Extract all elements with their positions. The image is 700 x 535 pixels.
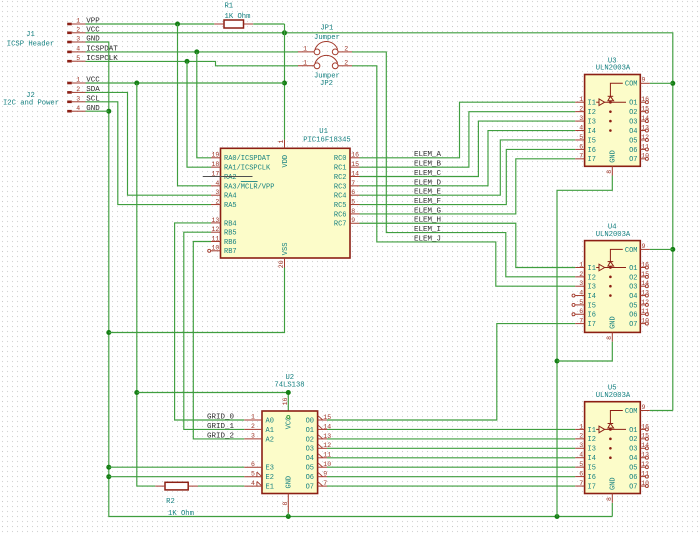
wire GRID_2 RB6 to U2 A2	[193, 242, 244, 439]
IC U1 body	[221, 148, 351, 258]
svg-text:18: 18	[211, 161, 219, 168]
IC U1 pin RA2 no-connect line	[203, 176, 253, 178]
wire VCC to U5 COM	[650, 410, 673, 412]
svg-text:8: 8	[606, 170, 613, 174]
IC U4 pin 15 O2	[629, 271, 649, 283]
svg-text:RA3/MCLR/VPP: RA3/MCLR/VPP	[224, 183, 274, 191]
svg-text:GRID_0: GRID_0	[207, 413, 235, 421]
svg-text:O6: O6	[629, 312, 637, 320]
svg-text:I4: I4	[588, 455, 596, 463]
connector J2 value I2C and Power	[3, 100, 59, 108]
wire VCC left vertical	[137, 83, 156, 486]
wire U2 O7 to U5 I7	[327, 485, 575, 487]
svg-text:O1: O1	[629, 100, 637, 108]
wire E1 R2 to U2	[198, 485, 244, 487]
svg-text:RA1/ICSPCLK: RA1/ICSPCLK	[224, 165, 271, 173]
IC U1 pin RA3 MCLR overbar	[241, 181, 258, 183]
IC U1 pin 2 RA5	[211, 198, 237, 210]
connector J2 pin 1 VCC	[67, 77, 100, 85]
connector J2 pin 2 SDA	[67, 86, 100, 94]
IC U2 reference	[285, 374, 294, 382]
jumper JP1 reference	[320, 24, 333, 32]
jumper JP2 reference	[320, 80, 333, 88]
svg-text:7: 7	[579, 318, 583, 325]
wire ELEM_E RC to U3	[360, 140, 576, 195]
svg-text:13: 13	[641, 124, 649, 131]
svg-text:RC2: RC2	[334, 174, 347, 182]
wire ELEM_I JP1.2 to U4 I2	[352, 52, 575, 277]
IC U4 pin 16 O1	[629, 261, 649, 273]
IC U1 pin 12 RB5	[211, 226, 237, 238]
IC U5 pin 16 O1	[629, 423, 649, 435]
connector J1 reference	[26, 31, 35, 39]
IC U1 pin 8 RC6	[334, 208, 360, 220]
svg-text:E2: E2	[266, 474, 274, 482]
IC U5 pin 12 O5	[629, 461, 649, 473]
wire ELEM_G RC to U3	[360, 159, 576, 214]
connector J2 pin 3 SCL	[67, 95, 100, 103]
wire GND J2.4	[86, 110, 109, 112]
IC U3 pin 12 O5	[629, 134, 649, 146]
resistor R1 value 1K Ohm	[225, 13, 251, 21]
svg-text:A1: A1	[266, 427, 274, 435]
svg-text:2: 2	[76, 86, 80, 93]
IC U5 pin 11 O6	[629, 471, 649, 483]
IC U2 pin 1 A0	[244, 414, 274, 426]
IC U4 value ULN2003A	[596, 231, 631, 239]
IC U1 pin 11 RB6	[211, 235, 237, 247]
IC U1 pin 10 RB7	[208, 245, 237, 257]
svg-text:GND: GND	[610, 316, 618, 329]
resistor R1 pins	[214, 23, 253, 25]
IC U4 pin 13 O4	[629, 289, 649, 301]
svg-text:2: 2	[579, 271, 583, 278]
svg-text:13: 13	[641, 452, 649, 459]
IC U5 pin 3 I3	[575, 442, 596, 454]
svg-text:RB5: RB5	[224, 230, 237, 238]
resistor R2 body	[165, 482, 188, 490]
svg-text:U1: U1	[319, 128, 328, 136]
IC U3 repetition dots	[609, 110, 612, 131]
jumper JP1	[298, 41, 352, 54]
IC U4 pin 1 I1	[575, 261, 596, 273]
svg-text:PIC16F18345: PIC16F18345	[303, 137, 350, 145]
svg-text:9: 9	[642, 77, 646, 84]
jumper JP2	[298, 55, 352, 68]
svg-text:I5: I5	[588, 465, 596, 473]
IC U5 value ULN2003A	[596, 392, 631, 400]
wire GRID_0 RB4 to U2 A0	[175, 223, 245, 420]
svg-text:E1: E1	[266, 484, 274, 492]
net label ELEM_F	[414, 198, 441, 206]
svg-text:A0: A0	[266, 417, 274, 425]
IC U5 pin 1 I1	[575, 423, 596, 435]
svg-text:RC1: RC1	[334, 165, 347, 173]
svg-text:RC3: RC3	[334, 183, 347, 191]
IC U3 pin 13 O4	[629, 124, 649, 136]
svg-text:O2: O2	[306, 436, 314, 444]
svg-text:I2C and Power: I2C and Power	[3, 100, 59, 108]
junction ICSPDAT at RA0 branch	[194, 49, 199, 54]
svg-text:I1: I1	[588, 100, 596, 108]
svg-text:7: 7	[351, 180, 355, 187]
svg-text:I1: I1	[588, 265, 596, 273]
svg-text:O2: O2	[629, 274, 637, 282]
svg-text:4: 4	[76, 46, 80, 53]
svg-text:O0: O0	[306, 417, 314, 425]
IC U1 value PIC16F18345	[303, 137, 350, 145]
wire GND U4 pin8 path	[557, 342, 612, 361]
svg-text:I7: I7	[588, 483, 596, 491]
svg-text:10: 10	[641, 480, 649, 487]
wire U2 O1 to U5 I1	[327, 428, 575, 430]
svg-text:O5: O5	[629, 137, 637, 145]
wire GND J1.3 down left rail	[86, 42, 613, 517]
junction GND rail at U2 GND	[286, 514, 291, 519]
svg-text:16: 16	[351, 152, 359, 159]
IC U4 pin 2 I2	[575, 271, 596, 283]
wire ELEM_B RC to U3	[360, 112, 576, 168]
svg-text:9: 9	[351, 217, 355, 224]
svg-text:3: 3	[579, 115, 583, 122]
svg-text:O4: O4	[629, 293, 637, 301]
IC U3 reference	[608, 57, 617, 65]
junction VCC at J2 row	[282, 81, 287, 86]
wire GND to U2 E2	[109, 476, 245, 478]
svg-text:1: 1	[251, 414, 255, 421]
junction VCC at J2 vertical	[134, 81, 139, 86]
svg-text:15: 15	[351, 161, 359, 168]
svg-text:14: 14	[323, 423, 331, 430]
svg-text:6: 6	[579, 143, 583, 150]
svg-text:10: 10	[641, 153, 649, 160]
IC U3 pin 14 O3	[629, 115, 649, 127]
svg-text:12: 12	[641, 299, 649, 306]
wire GND to U2 E3	[109, 466, 245, 468]
svg-text:15: 15	[641, 106, 649, 113]
svg-text:14: 14	[351, 170, 359, 177]
svg-text:14: 14	[641, 115, 649, 122]
net label GRID_0	[207, 413, 235, 421]
wire U2 O5 to U5 I5	[327, 466, 575, 468]
svg-text:8: 8	[282, 502, 289, 506]
IC U5 reference	[608, 385, 617, 393]
svg-text:GND: GND	[610, 150, 618, 163]
svg-text:8: 8	[606, 336, 613, 340]
svg-text:COM: COM	[625, 408, 638, 416]
svg-text:1: 1	[579, 96, 583, 103]
svg-text:GND: GND	[610, 477, 618, 490]
svg-text:3: 3	[76, 96, 80, 103]
IC U2 pin 3 A2	[244, 433, 274, 445]
svg-text:4: 4	[579, 289, 583, 296]
svg-text:RC6: RC6	[334, 211, 347, 219]
connector J2 pin 4 GND	[67, 105, 100, 113]
svg-text:3: 3	[76, 36, 80, 43]
IC U5 pin 14 O3	[629, 442, 649, 454]
IC U2 pin 11 O4	[306, 452, 332, 464]
svg-text:1: 1	[579, 261, 583, 268]
wire VPP J1.1 to R1	[86, 23, 215, 25]
IC U2 pin 4 E1	[244, 480, 274, 492]
IC U4 pin 11 O6	[629, 308, 649, 320]
net label ELEM_H	[414, 217, 441, 225]
svg-text:2: 2	[215, 198, 219, 205]
svg-text:5: 5	[579, 461, 583, 468]
svg-text:16: 16	[282, 397, 289, 405]
svg-text:I7: I7	[588, 156, 596, 164]
svg-text:9: 9	[642, 404, 646, 411]
svg-text:O4: O4	[629, 455, 637, 463]
svg-text:5: 5	[351, 198, 355, 205]
resistor R2 value 1K Ohm	[168, 510, 194, 518]
wire VCC to U4 COM	[650, 248, 673, 250]
svg-text:11: 11	[211, 235, 219, 242]
svg-text:12: 12	[211, 226, 219, 233]
IC U1 reference	[319, 128, 328, 136]
IC U4 pin 12 O5	[629, 299, 649, 311]
svg-text:16: 16	[641, 96, 649, 103]
IC U2 pin 15 O0	[306, 414, 332, 426]
svg-text:6: 6	[579, 308, 583, 315]
svg-text:ELEM_B: ELEM_B	[414, 161, 442, 169]
svg-text:R1: R1	[224, 2, 233, 10]
svg-text:Jumper: Jumper	[314, 72, 340, 80]
IC U2 pin 16 VCC	[282, 397, 293, 429]
junction VCC at U3 COM	[670, 81, 675, 86]
svg-text:5: 5	[579, 299, 583, 306]
junction VCC at U2 VCC pin	[286, 390, 291, 395]
svg-text:COM: COM	[625, 247, 638, 255]
svg-text:ELEM_A: ELEM_A	[414, 151, 442, 159]
svg-text:I4: I4	[588, 293, 596, 301]
svg-text:4: 4	[579, 124, 583, 131]
IC U2 value 74LS138	[274, 382, 304, 390]
svg-text:6: 6	[251, 461, 255, 468]
svg-text:11: 11	[323, 452, 331, 459]
junction VCC at U4 COM	[670, 247, 675, 252]
wire ELEM_C RC to U3	[360, 121, 576, 176]
svg-text:I3: I3	[588, 118, 596, 126]
IC U1 pin 9 RC7	[334, 217, 360, 229]
net label ELEM_D	[414, 179, 442, 187]
svg-text:4: 4	[579, 452, 583, 459]
wire ICSPDAT to RA0	[197, 52, 211, 158]
net label ELEM_J	[414, 235, 441, 243]
IC U5 internal darlington and diode icon	[596, 411, 626, 433]
svg-text:COM: COM	[625, 81, 638, 89]
wire VCC to U2 pin16	[137, 393, 288, 416]
IC U1 pin 18 RA1/ICSPCLK	[211, 161, 271, 173]
svg-text:GRID_2: GRID_2	[207, 432, 234, 440]
svg-text:5: 5	[579, 134, 583, 141]
connector J1 pin 2 VCC	[67, 26, 100, 34]
IC U3 value ULN2003A	[596, 65, 631, 73]
svg-text:3: 3	[579, 442, 583, 449]
svg-text:8: 8	[351, 208, 355, 215]
IC U4 pin 8 GND	[606, 316, 618, 341]
wire ELEM_F RC to U3	[360, 149, 576, 204]
svg-text:6: 6	[579, 471, 583, 478]
resistor R1 body	[224, 20, 244, 28]
svg-text:ELEM_H: ELEM_H	[414, 217, 441, 225]
IC U5 pin 8 GND	[606, 477, 618, 502]
wire VCC top rail	[86, 33, 673, 411]
svg-text:R2: R2	[166, 498, 175, 506]
svg-text:ELEM_J: ELEM_J	[414, 235, 441, 243]
wire ICSPCLK J1.5	[86, 61, 299, 65]
svg-text:12: 12	[641, 461, 649, 468]
svg-text:VSS: VSS	[282, 243, 290, 256]
junction GND at U1 VSS branch	[106, 330, 111, 335]
svg-text:5: 5	[76, 55, 80, 62]
svg-text:2: 2	[344, 46, 348, 53]
IC U3 pin 9 COM	[625, 77, 650, 89]
wire SCL J2.3 to RA5	[86, 102, 212, 205]
wire U2 O3 to U5 I3	[327, 447, 575, 449]
svg-text:A2: A2	[266, 436, 274, 444]
IC U3 pin 15 O2	[629, 106, 649, 118]
svg-text:I6: I6	[588, 312, 596, 320]
svg-text:E3: E3	[266, 465, 274, 473]
svg-text:14: 14	[641, 280, 649, 287]
junction ICSPCLK at RA1 branch	[185, 59, 190, 64]
wire GND U5 pin8	[611, 503, 613, 517]
IC U5 pin 9 COM	[625, 404, 650, 416]
svg-text:2: 2	[76, 27, 80, 34]
svg-text:1: 1	[278, 140, 285, 144]
junction GND rail at U3/U4 vertical	[555, 514, 560, 519]
junction GND at U2 E3	[106, 465, 111, 470]
wire U2 O6 to U5 I6	[327, 476, 575, 478]
svg-text:O2: O2	[629, 109, 637, 117]
wire U2 O2 to U5 I2	[327, 438, 575, 440]
wire ELEM_H RC7 to U4 I1	[360, 223, 576, 267]
IC U2 pin 5 E2	[244, 470, 274, 482]
svg-text:1: 1	[303, 60, 307, 67]
svg-text:16: 16	[641, 423, 649, 430]
svg-text:7: 7	[323, 480, 327, 487]
IC U1 pin 17 RA2	[211, 170, 237, 182]
svg-text:J1: J1	[26, 31, 35, 39]
svg-text:O1: O1	[306, 427, 314, 435]
IC U3 pin 10 O7	[629, 153, 649, 165]
svg-text:13: 13	[641, 289, 649, 296]
connector J1 pin 4 ICSPDAT	[67, 46, 118, 54]
svg-text:JP2: JP2	[320, 80, 333, 88]
resistor R2 reference	[166, 498, 175, 506]
svg-text:15: 15	[323, 414, 331, 421]
IC U2 pin 6 E3	[244, 461, 274, 473]
wire ELEM_A RC to U3	[360, 102, 576, 158]
svg-text:19: 19	[211, 152, 219, 159]
IC U3 body	[585, 75, 641, 167]
IC U2 pin 10 O5	[306, 461, 332, 473]
svg-text:ELEM_I: ELEM_I	[414, 226, 441, 234]
wire U2 O0 to U4 I7	[327, 324, 575, 420]
junction GND at U4 GND branch	[555, 359, 560, 364]
svg-text:20: 20	[278, 260, 285, 268]
svg-text:RB4: RB4	[224, 220, 237, 228]
svg-text:O5: O5	[629, 302, 637, 310]
IC U4 pin 3 I3	[575, 280, 596, 292]
svg-text:11: 11	[641, 308, 649, 315]
IC U2 pin 2 A1	[244, 423, 274, 435]
svg-text:RA0/ICSPDAT: RA0/ICSPDAT	[224, 155, 270, 163]
wire GND U2 pin8	[287, 513, 289, 517]
IC U1 pin 1 VDD	[278, 140, 290, 168]
jumper JP2 value Jumper	[314, 72, 340, 80]
IC U5 pin 5 I5	[575, 461, 596, 473]
svg-text:ELEM_C: ELEM_C	[414, 170, 442, 178]
svg-text:15: 15	[641, 433, 649, 440]
svg-text:12: 12	[323, 442, 331, 449]
IC U3 pin 6 I6	[575, 143, 596, 155]
svg-text:2: 2	[344, 60, 348, 67]
svg-text:13: 13	[211, 217, 219, 224]
IC U5 repetition dots	[609, 438, 612, 459]
svg-text:O5: O5	[629, 465, 637, 473]
svg-text:I6: I6	[588, 474, 596, 482]
net label ELEM_B	[414, 161, 442, 169]
net label ELEM_E	[414, 189, 442, 197]
wire U2 O4 to U5 I4	[327, 457, 575, 459]
IC U3 pin 3 I3	[575, 115, 596, 127]
svg-text:ULN2003A: ULN2003A	[596, 392, 631, 400]
svg-text:O3: O3	[629, 118, 637, 126]
svg-text:ELEM_D: ELEM_D	[414, 179, 442, 187]
svg-text:O6: O6	[306, 474, 314, 482]
wire ELEM_J JP2.2 to U4 I3	[352, 66, 575, 286]
svg-text:I4: I4	[588, 128, 596, 136]
connector J1 pin 5 ICSPCLK	[67, 55, 118, 63]
net label ELEM_A	[414, 151, 442, 159]
svg-text:O5: O5	[306, 465, 314, 473]
IC U1 pin 15 RC1	[334, 161, 360, 173]
svg-text:I6: I6	[588, 147, 596, 155]
svg-text:ELEM_E: ELEM_E	[414, 189, 442, 197]
IC U4 pin 6 I6	[572, 308, 596, 320]
IC U5 pin 6 I6	[575, 471, 596, 483]
wire VCC J2 row	[86, 82, 285, 84]
junction VPP at R1 branch	[175, 22, 180, 27]
IC U1 pin 6 RC4	[334, 189, 360, 201]
jumper JP1 value Jumper	[314, 34, 340, 42]
svg-text:O1: O1	[629, 265, 637, 273]
svg-text:I2: I2	[588, 109, 596, 117]
IC U1 pin 14 RC2	[334, 170, 360, 182]
connector J1 pin 3 GND	[67, 36, 100, 44]
svg-text:11: 11	[641, 471, 649, 478]
IC U4 pin 14 O3	[629, 280, 649, 292]
IC U1 pin 7 RC3	[334, 180, 360, 192]
svg-text:O3: O3	[306, 446, 314, 454]
svg-text:ELEM_G: ELEM_G	[414, 207, 442, 215]
svg-text:I5: I5	[588, 302, 596, 310]
IC U2 pin 9 O6	[306, 471, 328, 483]
svg-text:2: 2	[251, 423, 255, 430]
wire GND to U1 VSS	[109, 268, 285, 333]
svg-text:14: 14	[641, 442, 649, 449]
svg-text:RC5: RC5	[334, 202, 347, 210]
IC U5 pin 7 I7	[575, 480, 596, 492]
svg-text:7: 7	[579, 153, 583, 160]
wire SDA J2.2 to RA4	[86, 92, 212, 195]
net label GRID_2	[207, 432, 234, 440]
IC U5 pin 4 I4	[575, 452, 596, 464]
svg-text:I2: I2	[588, 436, 596, 444]
svg-text:9: 9	[642, 243, 646, 250]
